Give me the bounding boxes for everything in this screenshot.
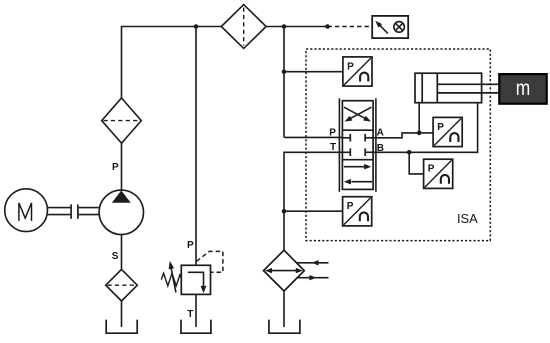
proportional valve U1 left rail [338,98,340,192]
mass load m [499,74,546,104]
wire: A junction up to cylinder piston side [418,103,420,133]
valve position 2: closed centre [342,134,373,156]
port label A (valve) [377,128,384,139]
wire: pump outlet to filter F1 [121,143,123,190]
pressure sensor S1 (supply) [343,57,372,86]
hydraulic pump P1 [99,190,143,234]
node: sensor S1 tap [282,69,287,74]
svg-text:P: P [329,128,336,139]
wire: cooler to tank T3 [283,291,285,327]
valve position 1: crossed arrows [344,107,372,121]
pressure gauge / switch G1 [372,16,408,38]
port label T (relief valve outlet) [187,309,193,320]
pressure sensor S4 (tank line) [343,197,372,226]
valve position 3: parallel arrows [344,164,372,185]
wire: relief valve to tank T1 [195,294,197,327]
svg-text:T: T [330,142,336,153]
svg-text:P: P [347,61,354,72]
wire: P line into valve [284,136,342,138]
electric motor M1 [5,189,48,232]
proportional valve U1 right rail [375,98,377,192]
wire: tap to sensor S4 [284,210,343,212]
node: junction top rail / relief valve branch [194,24,199,29]
port label P (relief valve inlet) [187,240,194,251]
wire: valve port A to cylinder [373,133,419,138]
coolant flow arrows [296,260,328,280]
wire: B junction to sensor S3 [409,152,423,174]
cylinder piston [422,73,437,103]
svg-text:P: P [187,240,194,251]
filter F1 pressure line [102,98,142,143]
port label T (valve) [330,142,336,153]
svg-text:A: A [377,128,384,139]
suction strainer F3 [106,269,138,301]
pressure sensor S3 (port B) [424,159,453,188]
node: supply branch to ISA [282,24,287,29]
port label P (valve) [329,128,336,139]
tank T2 [106,320,137,334]
port label S (pump suction) [112,251,119,262]
pressure relief valve V2 [161,251,223,294]
wire: tap to sensor S1 [284,71,343,73]
wire: top rail down to relief valve [195,27,197,266]
shaft coupling motor-pump [48,204,100,218]
node: B junction [407,150,412,155]
pressure sensor S2 (port A) [433,117,462,146]
port label P (pump outlet) [112,162,119,173]
node: gauge tap [325,24,330,29]
pilot wire (dashed) to pressure gauge [328,26,373,28]
svg-text:ISA: ISA [457,211,478,226]
svg-text:P: P [428,164,435,175]
svg-text:P: P [112,162,119,173]
label ISA [457,211,478,226]
node: A junction [417,131,422,136]
ISA enclosure (dashed) [306,49,490,241]
cylinder piston rod [437,84,499,93]
wire: A junction to sensor S2 [419,132,433,134]
tank T3 [269,320,300,334]
svg-text:S: S [112,251,119,262]
wire: pump suction to strainer [121,235,123,270]
tank T1 [181,320,211,334]
svg-text:P: P [437,122,444,133]
wire: T line from valve down to cooler [284,152,342,250]
svg-text:P: P [347,201,354,212]
wire: strainer to tank T2 [121,301,123,327]
node: sensor S4 tap on T line [282,209,287,214]
heat exchanger / cooler HE1 [264,250,305,291]
svg-text:T: T [187,309,193,320]
wire: supply drop into ISA (P) [283,27,285,138]
filter F2 top line [221,5,266,49]
wire: valve port B to cylinder rod side [373,103,478,153]
port label B (valve) [377,143,384,154]
svg-text:m: m [516,77,531,100]
wire: filter F1 up and along top rail [122,27,222,99]
hydraulic cylinder C1 barrel [415,73,482,103]
proportional valve U1 body [342,101,373,190]
wire: filter F2 to pressure tap node [266,26,327,28]
